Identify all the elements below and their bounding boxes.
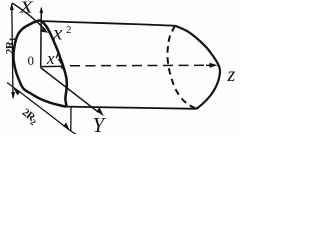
svg-text:2R1: 2R1 xyxy=(4,37,17,54)
svg-text:2R2: 2R2 xyxy=(19,106,40,127)
svg-text:2: 2 xyxy=(66,24,72,36)
svg-text:0: 0 xyxy=(28,53,35,68)
svg-text:x: x xyxy=(46,49,55,68)
svg-text:x: x xyxy=(52,21,63,45)
svg-text:z: z xyxy=(227,64,236,86)
svg-text:Y: Y xyxy=(93,113,107,134)
svg-text:X: X xyxy=(18,0,34,17)
